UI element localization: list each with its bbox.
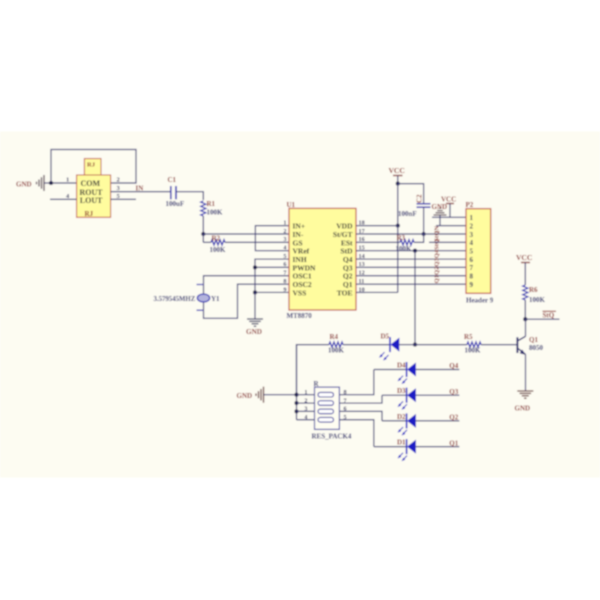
svg-text:D1: D1 xyxy=(397,439,406,447)
svg-text:LOUT: LOUT xyxy=(80,196,103,205)
pin 16 ESt xyxy=(356,241,365,243)
wire RJ pin1 xyxy=(51,182,77,184)
svg-text:R5: R5 xyxy=(464,333,473,341)
wire P2 pin1 xyxy=(432,216,466,218)
svg-text:Q3: Q3 xyxy=(434,258,441,267)
connector P2 Header 9 xyxy=(466,209,491,294)
svg-text:MT8870: MT8870 xyxy=(287,312,313,320)
wire left corner to R4 xyxy=(297,345,330,395)
pin 11 Q1 xyxy=(356,283,365,285)
svg-text:12: 12 xyxy=(359,270,365,277)
wire Q2 pin12 xyxy=(365,275,466,277)
svg-text:C2: C2 xyxy=(416,194,424,203)
wire VCC to TOE pin10 xyxy=(397,226,399,293)
svg-text:Y1: Y1 xyxy=(211,295,220,303)
wire D1 to net Q1 xyxy=(416,446,459,448)
wire Q4 pin14 xyxy=(365,258,466,260)
wire C2 to StGT xyxy=(423,207,425,234)
wire P2 pin2 xyxy=(436,225,466,227)
node StGT junction xyxy=(422,232,426,236)
transistor Q1 8050 xyxy=(516,337,518,353)
svg-text:8: 8 xyxy=(470,273,474,281)
wire pack pin7 to D3 row xyxy=(339,395,382,403)
wire pack pin5 to D1 row xyxy=(339,420,374,447)
svg-text:1: 1 xyxy=(283,219,286,226)
svg-text:VCC: VCC xyxy=(389,166,405,175)
wire OSC1 to crystal xyxy=(204,276,290,285)
svg-text:D5: D5 xyxy=(381,332,390,340)
svg-text:4: 4 xyxy=(470,239,474,247)
svg-text:Header 9: Header 9 xyxy=(466,296,494,304)
svg-text:R6: R6 xyxy=(529,286,538,294)
svg-text:Q1: Q1 xyxy=(529,336,538,344)
svg-text:R4: R4 xyxy=(330,333,339,341)
svg-text:2: 2 xyxy=(117,176,120,183)
wire RJ pin3 IN net xyxy=(111,191,171,193)
svg-text:GND: GND xyxy=(515,405,531,413)
pin 4 of RES_PACK4 xyxy=(297,419,315,421)
wire R6 to collector node xyxy=(524,300,526,319)
svg-text:VSS: VSS xyxy=(293,288,307,297)
wire StD down to D5/R5 row xyxy=(414,251,416,345)
svg-text:100K: 100K xyxy=(529,296,546,304)
svg-text:3: 3 xyxy=(470,231,474,239)
wire loop RJ pin2 to GND node xyxy=(51,150,136,184)
resistor element 3 xyxy=(318,409,334,414)
wire INH/PWDN/VSS bus xyxy=(255,259,289,292)
svg-text:6: 6 xyxy=(470,256,474,264)
wire R3 to StGT node xyxy=(414,234,424,242)
wire R5 to Q1 base xyxy=(481,344,517,346)
svg-text:100uF: 100uF xyxy=(166,200,185,208)
svg-text:5: 5 xyxy=(283,253,286,260)
svg-text:R3: R3 xyxy=(397,234,406,242)
svg-text:100K: 100K xyxy=(210,246,227,254)
wire StGT pin17 to P2 pin3, net IN xyxy=(365,233,466,235)
node VSS junction xyxy=(253,290,257,294)
svg-text:Q4: Q4 xyxy=(434,249,441,258)
diode D1 LED xyxy=(374,446,407,448)
svg-text:7: 7 xyxy=(470,264,474,272)
resistor element 2 xyxy=(318,401,334,406)
svg-text:D3: D3 xyxy=(397,387,406,395)
svg-text:5: 5 xyxy=(470,248,474,256)
wire U1 pin1 IN+ to pin4 VRef xyxy=(255,226,289,251)
svg-text:Q4: Q4 xyxy=(449,362,458,370)
svg-text:7: 7 xyxy=(283,270,286,277)
wire pack common bus xyxy=(296,345,298,420)
svg-text:16: 16 xyxy=(359,236,365,243)
resistor element 1 xyxy=(318,392,334,397)
svg-text:RJ: RJ xyxy=(87,162,96,169)
wire to ground below U1 xyxy=(254,292,256,319)
resistor R6 xyxy=(523,285,528,300)
wire D3 to net Q3 xyxy=(416,394,459,396)
svg-text:Q1: Q1 xyxy=(434,275,441,283)
pin 18 VDD xyxy=(356,225,365,227)
svg-text:6: 6 xyxy=(283,261,286,268)
wire D2 to net Q2 xyxy=(416,420,459,422)
svg-text:3: 3 xyxy=(304,406,307,413)
wire pack pin6 to D2 row xyxy=(339,411,382,421)
node D5 row junction xyxy=(413,343,417,347)
svg-text:1: 1 xyxy=(304,389,307,396)
wire OSC2 to crystal xyxy=(204,284,290,318)
node pack pin1 xyxy=(294,393,298,397)
svg-text:2: 2 xyxy=(304,397,307,404)
wire GND to pack bus xyxy=(264,394,297,396)
resistor R1 xyxy=(201,201,206,216)
svg-text:100nF: 100nF xyxy=(398,210,417,218)
pin 3 of RES_PACK4 xyxy=(297,410,315,412)
wire StQ net xyxy=(525,318,559,320)
svg-text:11: 11 xyxy=(359,278,365,285)
wire VDD pin18 xyxy=(365,225,398,227)
resistor R2 xyxy=(202,234,204,242)
svg-text:IN: IN xyxy=(136,184,144,192)
svg-text:Q3: Q3 xyxy=(449,388,458,396)
wire C1 to R1 xyxy=(176,192,203,200)
svg-text:100K: 100K xyxy=(328,347,345,355)
ground below U1 xyxy=(247,318,263,320)
node VDD junction xyxy=(396,224,400,228)
svg-text:9: 9 xyxy=(283,286,286,293)
svg-text:Q2: Q2 xyxy=(434,267,441,275)
diode D4 LED xyxy=(374,369,407,371)
wire node to R5 xyxy=(415,344,467,346)
wire VCC branch to C2 xyxy=(398,184,424,204)
svg-text:1: 1 xyxy=(66,176,69,183)
svg-text:2: 2 xyxy=(470,222,474,230)
node pack pin3 xyxy=(294,409,298,413)
svg-text:StQ: StQ xyxy=(543,312,555,320)
node R1/R2/IN- junction xyxy=(201,232,205,236)
svg-text:9: 9 xyxy=(470,281,474,289)
svg-text:D4: D4 xyxy=(397,362,406,370)
node junction at GND xyxy=(49,181,53,185)
svg-text:2: 2 xyxy=(283,228,286,235)
wire R4 to D5 xyxy=(343,344,390,346)
resistor R4 xyxy=(329,342,343,347)
wire pack pin8 to D4 row xyxy=(339,370,374,395)
wire D5 to node xyxy=(399,344,415,346)
svg-text:TOE: TOE xyxy=(337,288,353,297)
svg-text:4: 4 xyxy=(283,245,286,252)
svg-text:P2: P2 xyxy=(466,201,474,209)
wire GND to node xyxy=(44,182,51,184)
svg-text:100K: 100K xyxy=(396,245,413,253)
wire StD pin15 to P2 pin5 xyxy=(365,250,466,252)
wire R2 to U1 pin3 GS xyxy=(225,241,289,243)
op-amp U1 MT8870 body xyxy=(289,208,356,310)
svg-text:1: 1 xyxy=(470,214,474,222)
node pack pin2 xyxy=(294,401,298,405)
connector RJ xyxy=(84,159,101,175)
svg-text:GND: GND xyxy=(246,328,262,336)
resistor element 4 xyxy=(318,417,334,422)
svg-text:R2: R2 xyxy=(212,235,221,243)
wire VCC down to VDD xyxy=(397,184,399,226)
svg-text:GND: GND xyxy=(16,181,32,189)
node VCC branch xyxy=(396,182,400,186)
svg-text:C1: C1 xyxy=(168,176,177,184)
pin 10 TOE xyxy=(356,291,365,293)
svg-text:Q1: Q1 xyxy=(449,439,458,447)
pin 1 of RES_PACK4 xyxy=(297,394,315,396)
crystal Y1 xyxy=(197,284,204,286)
pin 15 StD xyxy=(356,250,365,252)
svg-text:RES_PACK4: RES_PACK4 xyxy=(312,432,352,440)
node PWDN junction xyxy=(253,265,257,269)
pin 17 St/GT xyxy=(356,233,365,235)
wire to U1 pin2 IN- xyxy=(203,233,289,235)
wire D4 to net Q4 xyxy=(416,369,459,371)
svg-text:13: 13 xyxy=(359,261,365,268)
svg-text:3: 3 xyxy=(283,236,286,243)
resistor network R RES_PACK4 xyxy=(315,387,340,429)
svg-text:100K: 100K xyxy=(207,208,224,216)
svg-text:R1: R1 xyxy=(207,200,216,208)
pin 13 Q3 xyxy=(356,266,365,268)
svg-text:10: 10 xyxy=(359,286,365,293)
svg-text:100K: 100K xyxy=(465,347,482,355)
svg-text:StQ: StQ xyxy=(434,239,441,250)
wire Q1 pin11 xyxy=(365,283,466,285)
svg-text:8050: 8050 xyxy=(529,344,544,352)
svg-text:15: 15 xyxy=(359,245,365,252)
svg-text:14: 14 xyxy=(359,253,365,260)
pin 12 Q2 xyxy=(356,275,365,277)
resistor R3 xyxy=(400,240,414,245)
svg-text:GND: GND xyxy=(237,392,253,400)
node StD junction xyxy=(413,249,417,253)
capacitor C2 xyxy=(417,203,431,205)
svg-text:D2: D2 xyxy=(397,413,406,421)
diode D2 LED xyxy=(382,420,407,422)
resistor R5 xyxy=(467,342,481,347)
wire emitter to ground xyxy=(525,357,527,391)
capacitor C1 xyxy=(170,186,172,199)
svg-text:3.579545MHZ: 3.579545MHZ xyxy=(154,296,196,303)
pin 2 of RES_PACK4 xyxy=(297,402,315,404)
svg-text:RJ: RJ xyxy=(85,210,94,218)
node collector junction xyxy=(523,317,527,321)
svg-text:17: 17 xyxy=(359,228,365,235)
svg-text:8: 8 xyxy=(283,278,286,285)
svg-text:GND: GND xyxy=(432,203,448,211)
wire P2 pin4 stub xyxy=(429,241,466,243)
svg-text:18: 18 xyxy=(359,219,365,226)
pin 14 Q4 xyxy=(356,258,365,260)
ground below Q1 xyxy=(517,390,533,392)
diode D3 LED xyxy=(382,394,407,396)
wire ESt pin16 to R3 xyxy=(365,241,400,243)
wire Q3 pin13 xyxy=(365,266,466,268)
svg-text:U1: U1 xyxy=(287,201,296,209)
svg-text:Q2: Q2 xyxy=(449,414,458,422)
svg-text:VCC: VCC xyxy=(516,253,532,262)
svg-text:4: 4 xyxy=(304,414,307,421)
wire R1 to IN- node xyxy=(202,216,204,234)
diode D5 LED xyxy=(389,337,391,352)
